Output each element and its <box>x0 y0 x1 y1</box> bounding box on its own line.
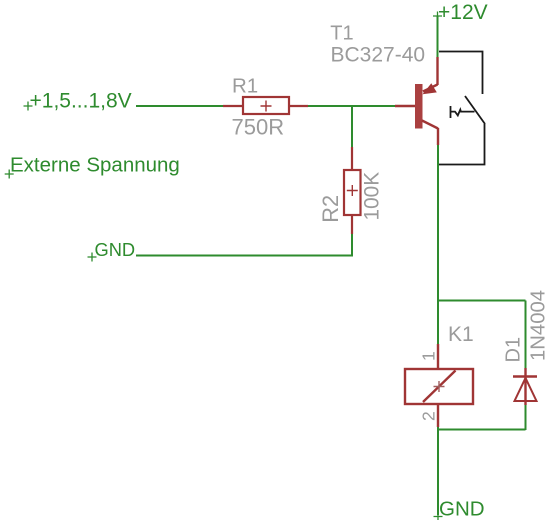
wire: left vertical to relay pin1 <box>437 301 439 345</box>
wire: relay loop bottom horizontal <box>438 429 526 431</box>
collector pin <box>437 128 439 145</box>
svg-text:GND: GND <box>95 239 136 260</box>
svg-text:D1: D1 <box>503 337 525 363</box>
svg-text:100K: 100K <box>361 172 384 221</box>
wire: relay loop top horizontal <box>437 300 526 302</box>
diode D1 <box>513 368 537 405</box>
svg-text:+12V: +12V <box>438 1 488 24</box>
relay K1 coil <box>405 344 473 427</box>
wire: junction down to R2 <box>351 105 353 147</box>
wire: diode branch upper <box>525 301 527 369</box>
svg-text:+1,5...1,8V: +1,5...1,8V <box>30 90 132 113</box>
svg-text:2: 2 <box>419 411 439 421</box>
svg-text:Externe Spannung: Externe Spannung <box>10 153 180 176</box>
resistor R1 <box>223 97 308 114</box>
svg-text:R2: R2 <box>318 195 343 223</box>
node +1,5...1,8V label <box>24 102 33 111</box>
svg-text:T1: T1 <box>330 22 353 44</box>
wire: relay pin2 to bottom rail <box>437 427 439 430</box>
wire: collector net down to relay <box>437 145 439 301</box>
wire: R1 right to base pin <box>308 105 395 107</box>
wire: main horizontal net from +1,5V to R1 <box>136 105 223 107</box>
svg-text:1: 1 <box>419 351 439 361</box>
svg-text:R1: R1 <box>232 74 258 97</box>
wire: GND vertical to bottom label <box>437 430 439 516</box>
wire: diode branch lower <box>525 404 527 430</box>
node GND (bottom) label <box>434 512 443 520</box>
node GND (left) label <box>88 253 97 262</box>
emitter arrow <box>423 83 437 94</box>
base bar <box>415 84 423 129</box>
emitter diagonal <box>423 85 438 92</box>
collector diagonal <box>422 121 438 129</box>
svg-text:GND: GND <box>439 498 485 520</box>
wire: R2 bottom to GND rail <box>351 234 353 256</box>
svg-text:1N4004: 1N4004 <box>528 290 550 361</box>
relay switch contact (black) <box>439 52 485 165</box>
svg-text:BC327-40: BC327-40 <box>331 44 426 67</box>
transistor T1 BC327-40 (PNP) <box>395 57 438 145</box>
svg-text:750R: 750R <box>232 114 285 139</box>
wire: +12V vertical <box>437 17 439 58</box>
text Externe Spannung <box>5 170 14 179</box>
resistor R2 <box>344 147 361 234</box>
wire: GND horizontal rail <box>136 255 353 257</box>
base pin <box>395 105 415 107</box>
emitter pin <box>436 57 438 85</box>
svg-text:K1: K1 <box>448 323 474 346</box>
node +12V label <box>433 12 442 21</box>
